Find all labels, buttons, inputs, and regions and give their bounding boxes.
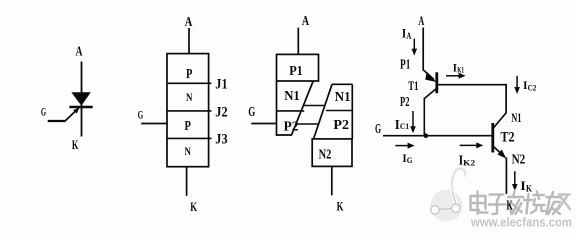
svg-text:J1: J1: [215, 77, 227, 93]
svg-text:www.elecfans.com: www.elecfans.com: [470, 215, 572, 230]
svg-text:N2: N2: [319, 147, 332, 162]
svg-text:N2: N2: [512, 152, 526, 167]
svg-text:N1: N1: [511, 110, 521, 125]
svg-text:P1: P1: [400, 57, 410, 72]
svg-text:P1: P1: [289, 64, 303, 79]
svg-text:K2: K2: [463, 157, 475, 167]
svg-text:A: A: [418, 13, 424, 28]
svg-text:G: G: [375, 122, 381, 137]
svg-text:G: G: [248, 105, 255, 120]
svg-text:K: K: [506, 199, 512, 214]
svg-text:C2: C2: [528, 83, 537, 93]
svg-text:P2: P2: [333, 118, 349, 133]
svg-text:G: G: [41, 105, 46, 119]
svg-text:T1: T1: [408, 78, 418, 93]
svg-text:K1: K1: [457, 64, 464, 74]
svg-text:N: N: [185, 144, 192, 158]
svg-text:I: I: [520, 178, 526, 193]
svg-text:C1: C1: [400, 121, 409, 131]
svg-text:K: K: [337, 198, 344, 213]
svg-text:P2: P2: [400, 95, 410, 110]
svg-text:K: K: [72, 137, 79, 152]
svg-text:A: A: [76, 45, 83, 60]
svg-text:N1: N1: [284, 89, 300, 104]
svg-text:P: P: [186, 67, 193, 82]
svg-text:A: A: [185, 15, 193, 30]
svg-text:P2: P2: [284, 119, 299, 134]
svg-text:A: A: [302, 14, 310, 29]
svg-text:J3: J3: [215, 132, 227, 148]
svg-text:G: G: [138, 107, 144, 121]
svg-text:G: G: [407, 155, 413, 165]
svg-text:T2: T2: [501, 130, 515, 146]
svg-text:J2: J2: [215, 104, 227, 120]
svg-text:N1: N1: [335, 90, 351, 105]
svg-text:N: N: [186, 90, 193, 104]
svg-text:K: K: [190, 199, 197, 214]
svg-text:A: A: [407, 32, 412, 42]
svg-text:P: P: [185, 119, 192, 134]
